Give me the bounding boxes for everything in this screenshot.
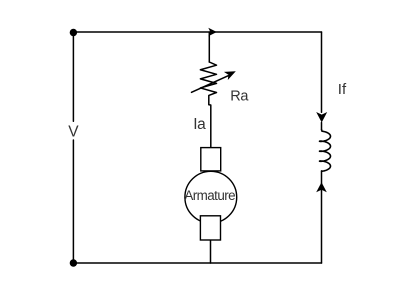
svg-text:V: V — [68, 123, 79, 140]
svg-text:If: If — [338, 81, 347, 98]
svg-text:Ia: Ia — [193, 116, 206, 133]
svg-text:Armature: Armature — [184, 188, 235, 203]
svg-text:Ra: Ra — [230, 89, 249, 105]
